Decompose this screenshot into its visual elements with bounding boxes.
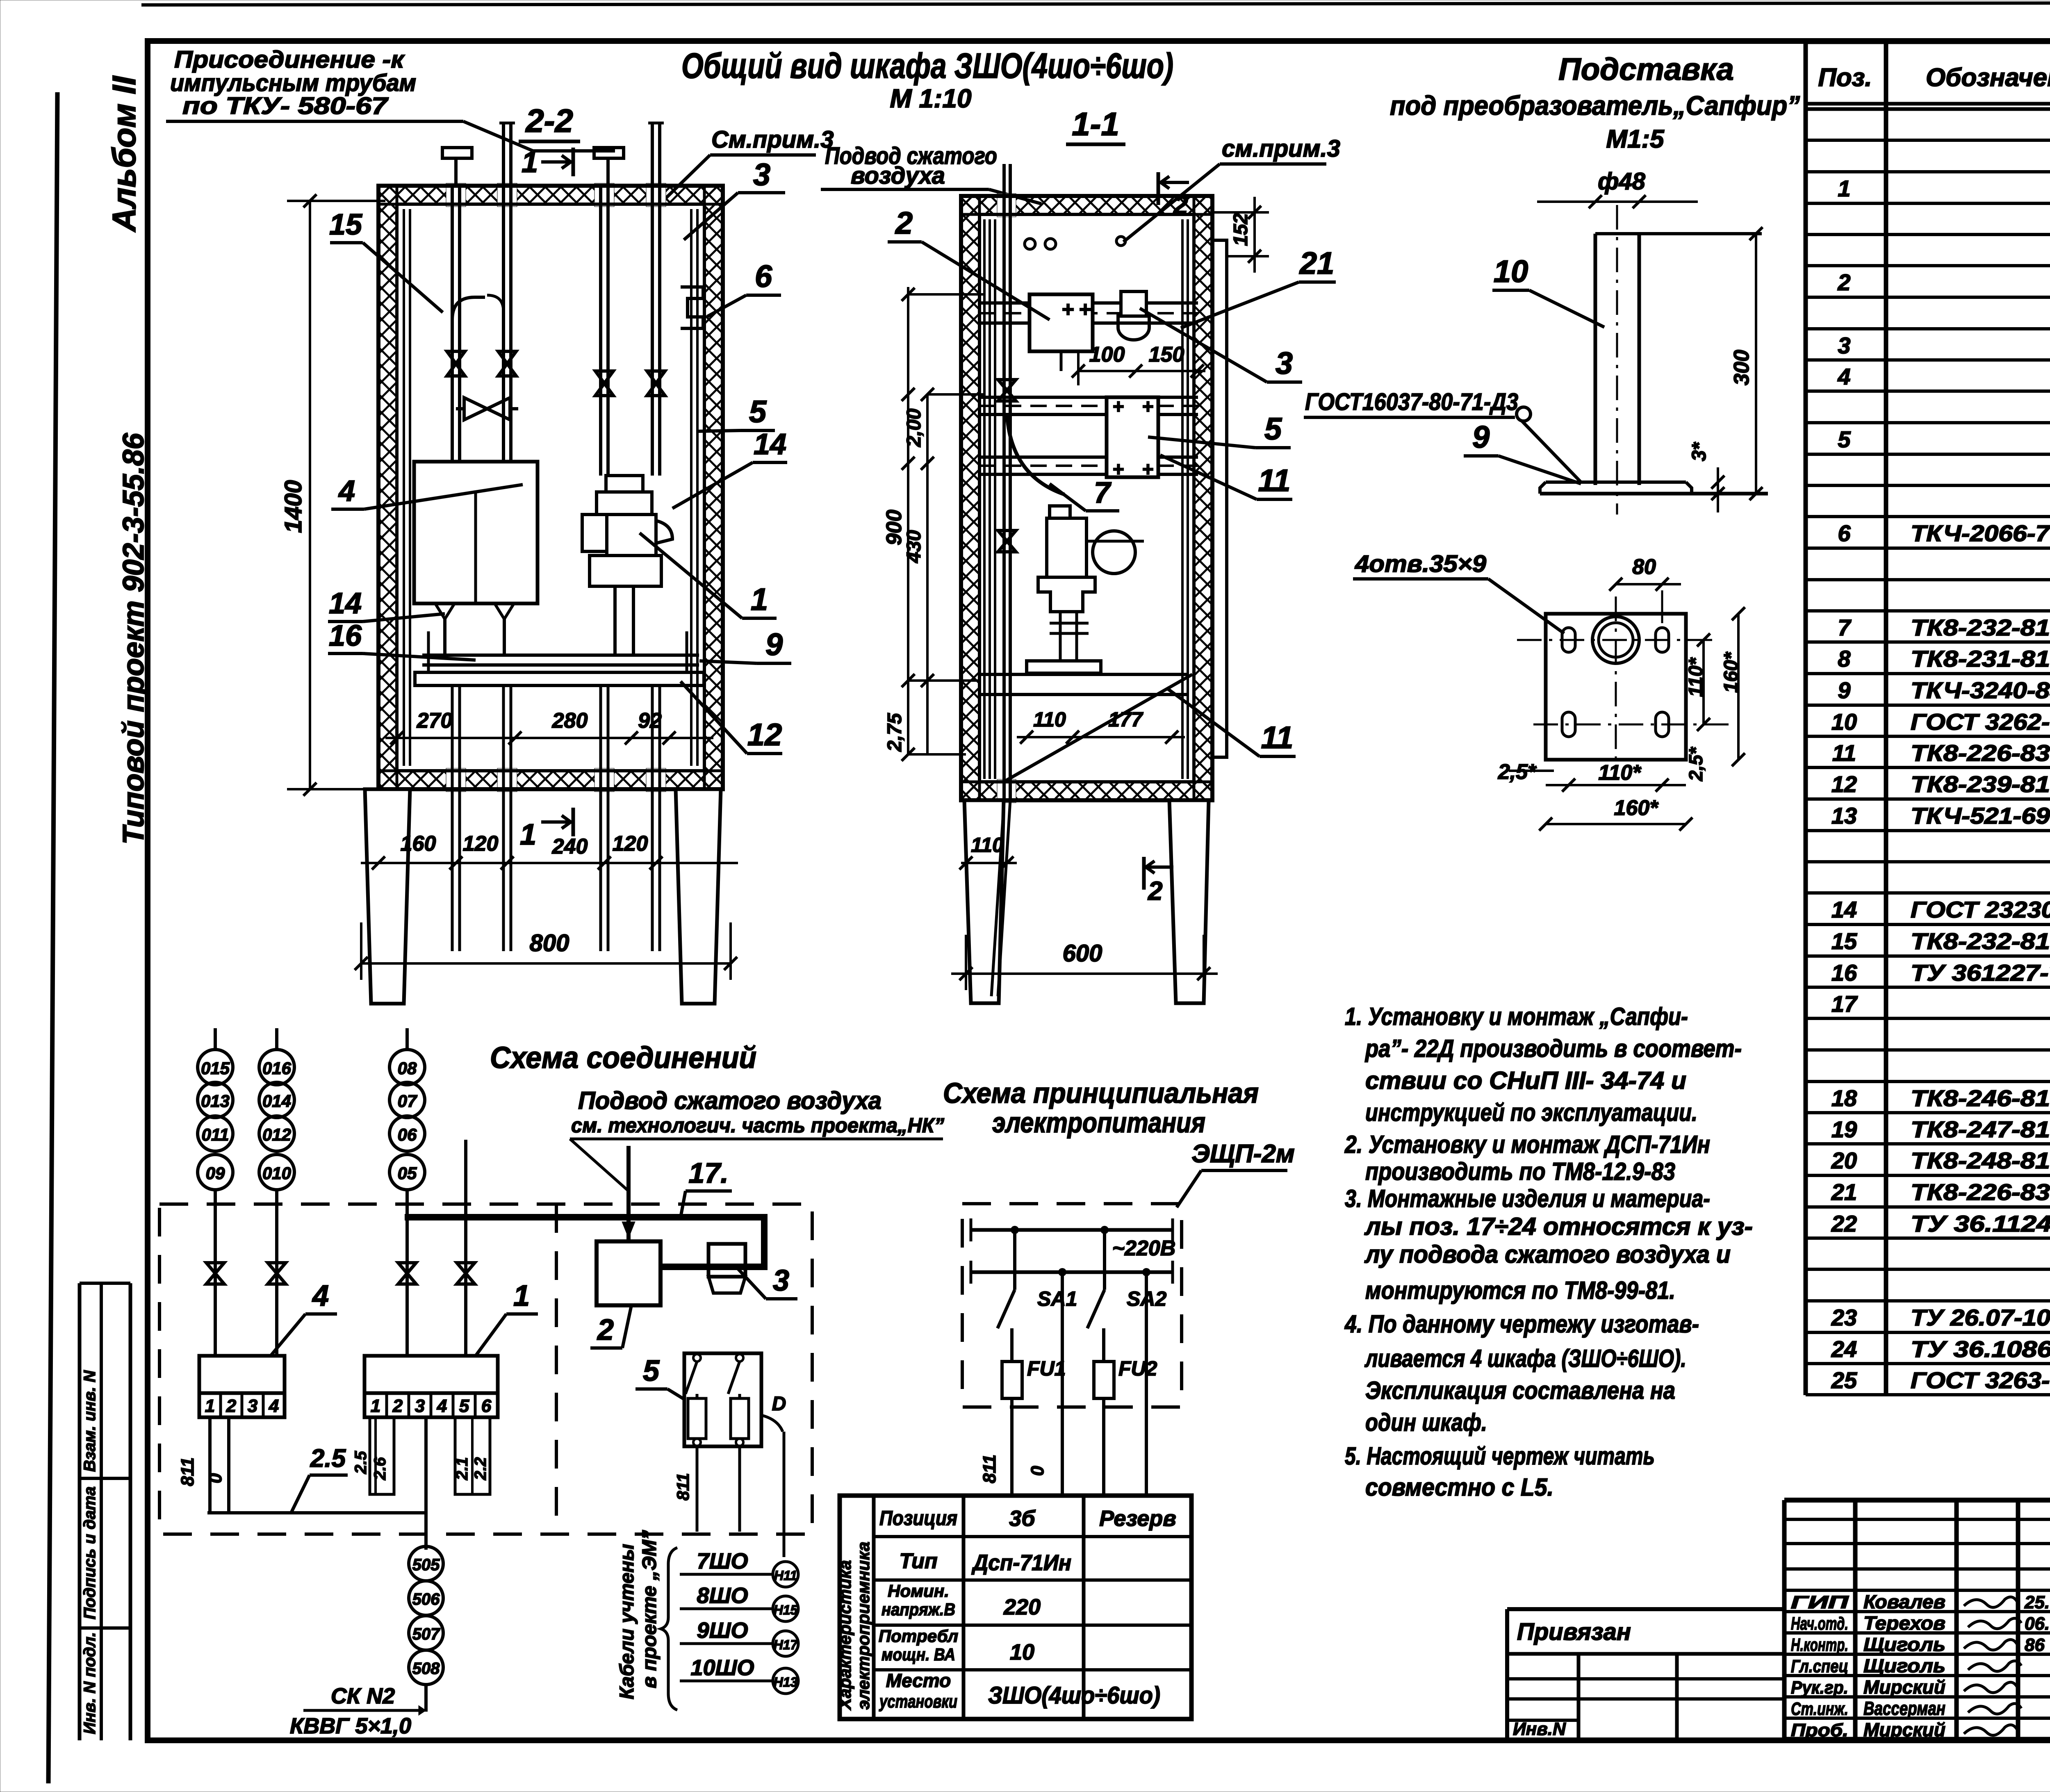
svg-text:10: 10	[1494, 254, 1528, 289]
svg-text:270: 270	[417, 709, 453, 733]
door latch item (right wall)	[681, 287, 703, 328]
fuse FU2	[1094, 1357, 1157, 1497]
svg-text:92: 92	[638, 709, 662, 733]
ESHP-2m label	[1177, 1140, 1295, 1207]
vent holes top	[1025, 237, 1125, 249]
left dims 900/430/200/275	[882, 287, 984, 761]
svg-text:25: 25	[1831, 1367, 1857, 1393]
dim phi48	[1537, 168, 1698, 208]
svg-text:3: 3	[1276, 346, 1293, 381]
svg-text:Н.контр.: Н.контр.	[1791, 1635, 1848, 1655]
schema valve x675	[268, 1263, 286, 1284]
svg-text:Альбом II: Альбом II	[106, 75, 142, 232]
svg-text:160*: 160*	[1720, 651, 1742, 693]
wires down from circles	[215, 1140, 466, 1356]
svg-text:ф48: ф48	[1598, 168, 1646, 195]
svg-text:М1:5: М1:5	[1606, 125, 1665, 153]
note: podvod szhatogo vozduha (top)	[821, 143, 1041, 204]
dim 3*	[1688, 442, 1724, 512]
svg-text:М 1:10: М 1:10	[890, 84, 971, 113]
svg-text:8ШО: 8ШО	[697, 1583, 748, 1608]
svg-text:2: 2	[392, 1396, 403, 1416]
svg-text:+: +	[1142, 459, 1153, 480]
dashed enclosure left	[159, 1204, 812, 1534]
wire circles column C	[389, 1028, 425, 1190]
title block main	[1784, 1498, 2050, 1740]
schema electro title	[943, 1077, 1259, 1139]
device box item 4 (difmanometer)	[414, 462, 538, 603]
dim 152 right	[1212, 197, 1269, 273]
svg-text:Ст.инж.: Ст.инж.	[1791, 1699, 1848, 1719]
svg-text:ТУ 361227-72: ТУ 361227-72	[1911, 960, 2050, 986]
wire circles column A	[198, 1028, 233, 1190]
svg-text:4: 4	[338, 475, 355, 508]
svg-text:5: 5	[1264, 412, 1282, 446]
cabinet legs	[365, 789, 721, 1004]
shkaf rows 7-10 SHO	[680, 1549, 799, 1694]
svg-text:4: 4	[437, 1396, 447, 1416]
middle rails pair	[979, 397, 1198, 474]
svg-text:Н17: Н17	[774, 1637, 799, 1652]
svg-text:+: +	[1112, 459, 1124, 480]
valve on pipe 2	[498, 351, 516, 376]
svg-text:2,75: 2,75	[884, 713, 906, 752]
svg-text:Типовой проект 902-3-55.86: Типовой проект 902-3-55.86	[117, 433, 150, 845]
svg-text:120: 120	[613, 832, 648, 856]
switch SA2	[1087, 1230, 1166, 1362]
svg-text:1: 1	[751, 582, 768, 617]
svg-text:ТК8-248-81: ТК8-248-81	[1911, 1148, 2050, 1173]
svg-text:4: 4	[312, 1280, 329, 1312]
dim 300	[1730, 227, 1763, 500]
svg-text:4. По данному чертежу изгота: 4. По данному чертежу изготав-	[1344, 1310, 1699, 1338]
svg-text:Щиголь: Щиголь	[1863, 1655, 1945, 1676]
stand plan view	[1517, 597, 1734, 779]
mounting plate item 5	[1107, 396, 1158, 480]
svg-text:Инв.N: Инв.N	[1513, 1719, 1566, 1739]
pipes vertical (left pair)	[452, 123, 511, 462]
svg-text:1: 1	[522, 146, 538, 179]
label 1 (schema)	[476, 1280, 538, 1356]
GOST 16037 note	[1304, 389, 1581, 482]
section mark 2 bottom	[1144, 857, 1173, 906]
svg-text:2: 2	[1837, 269, 1850, 295]
svg-text:монтируются по ТМ8-99-81.: монтируются по ТМ8-99-81.	[1365, 1277, 1675, 1304]
svg-text:505: 505	[412, 1556, 440, 1574]
stand base plate side	[1540, 482, 1768, 494]
svg-text:ТК8-239-81: ТК8-239-81	[1911, 771, 2050, 797]
svg-text:под преобразователь„Сапфир”: под преобразователь„Сапфир”	[1390, 90, 1800, 121]
dims 110*/160* right	[1685, 607, 1745, 766]
svg-text:5: 5	[459, 1396, 469, 1416]
svg-text:Ковалев: Ковалев	[1863, 1591, 1945, 1612]
svg-text:КВВГ 5×1,0: КВВГ 5×1,0	[290, 1714, 411, 1738]
section title 1-1	[1066, 106, 1125, 144]
label 3 (middle view)	[1140, 308, 1302, 382]
bottom diagonal panel	[1004, 674, 1192, 782]
valve on pipe 1	[447, 351, 465, 376]
svg-text:мощн. ВА: мощн. ВА	[881, 1645, 955, 1664]
privyazan block	[1507, 1609, 1784, 1740]
svg-text:1. Установку и монтаж „Сапфи: 1. Установку и монтаж „Сапфи-	[1345, 1003, 1688, 1030]
note: prisoedinenie text	[166, 46, 615, 151]
svg-text:220: 220	[1003, 1595, 1041, 1619]
label 2 (schema)	[590, 1305, 631, 1348]
svg-text:23: 23	[1831, 1305, 1857, 1330]
svg-text:9ШО: 9ШО	[697, 1618, 748, 1643]
label 1	[640, 533, 777, 618]
svg-text:ТКЧ-2066-77: ТКЧ-2066-77	[1911, 520, 2050, 546]
svg-text:2: 2	[226, 1396, 237, 1416]
label 14 right	[672, 428, 787, 508]
label 21	[1181, 246, 1336, 328]
svg-text:6: 6	[1838, 520, 1851, 546]
svg-text:014: 014	[262, 1091, 291, 1111]
section mark 2 top	[1158, 172, 1189, 220]
svg-text:06: 06	[398, 1125, 417, 1144]
margin text Album II	[106, 75, 142, 232]
svg-text:13: 13	[1831, 803, 1857, 829]
svg-text:2,5*: 2,5*	[1685, 747, 1706, 781]
svg-text:Поз.: Поз.	[1818, 64, 1872, 92]
dims bottom 2,5*/110*/160*	[1498, 747, 1706, 831]
svg-text:1400: 1400	[280, 480, 307, 533]
regulator box 2 (schema)	[597, 1241, 661, 1305]
dashed enclosure ESHP	[962, 1204, 1182, 1407]
svg-text:3: 3	[773, 1264, 789, 1297]
svg-text:14: 14	[329, 587, 362, 620]
svg-text:0: 0	[205, 1473, 225, 1483]
svg-text:ТК8-226-83: ТК8-226-83	[1911, 1179, 2050, 1205]
cable label SK N2	[290, 1684, 426, 1738]
svg-text:ГОСТ 3263-79: ГОСТ 3263-79	[1911, 1367, 2050, 1393]
sapphire transmitter side view	[1027, 506, 1144, 673]
svg-text:электроприемника: электроприемника	[854, 1542, 873, 1710]
svg-text:86: 86	[2025, 1635, 2045, 1655]
svg-text:506: 506	[412, 1590, 440, 1608]
wire circles column B	[259, 1028, 294, 1190]
svg-text:507: 507	[412, 1625, 440, 1643]
svg-text:2.5: 2.5	[310, 1444, 346, 1473]
svg-text:+: +	[1079, 298, 1091, 321]
label D and wire	[761, 1393, 786, 1557]
paper edge mark top right	[141, 2, 2050, 66]
svg-text:Кабели учтены: Кабели учтены	[616, 1544, 638, 1699]
svg-text:2.6: 2.6	[371, 1457, 389, 1480]
wire channels below block 1	[352, 1417, 490, 1494]
svg-text:508: 508	[412, 1660, 440, 1678]
svg-text:811: 811	[979, 1455, 1000, 1483]
svg-text:430: 430	[903, 530, 925, 563]
label 5 (schema)	[635, 1355, 686, 1400]
svg-text:Вассерман: Вассерман	[1863, 1698, 1945, 1719]
cable circles 505-508	[409, 1546, 443, 1712]
svg-text:ТК8-231-81: ТК8-231-81	[1911, 646, 2050, 672]
svg-text:2: 2	[1173, 190, 1188, 220]
svg-text:совместно с L5.: совместно с L5.	[1365, 1473, 1553, 1501]
dim 110 bottom left	[959, 833, 1017, 870]
label 11 upper	[1160, 455, 1292, 499]
svg-text:Общий вид шкафа ЗШО(4шо÷6шо): Общий вид шкафа ЗШО(4шо÷6шо)	[681, 46, 1173, 86]
svg-text:Резерв: Резерв	[1099, 1506, 1176, 1531]
svg-text:ТУ 36.1124-74: ТУ 36.1124-74	[1911, 1211, 2050, 1236]
svg-text:110*: 110*	[1598, 761, 1642, 785]
svg-text:5: 5	[643, 1355, 660, 1387]
svg-text:120: 120	[463, 832, 499, 856]
svg-text:ТК8-247-81: ТК8-247-81	[1911, 1116, 2050, 1142]
svg-text:Схема соединений: Схема соединений	[490, 1041, 756, 1075]
svg-text:11: 11	[1258, 463, 1291, 498]
svg-text:FU1: FU1	[1027, 1357, 1066, 1380]
section title 2-2	[519, 102, 580, 141]
svg-text:016: 016	[262, 1059, 292, 1078]
svg-text:ТК8-232-81: ТК8-232-81	[1911, 615, 2050, 640]
svg-text:21: 21	[1831, 1179, 1857, 1205]
svg-text:Подпись и дата: Подпись и дата	[81, 1487, 99, 1619]
label 5 (middle view)	[1148, 412, 1291, 448]
regulator item 2 box	[1030, 294, 1093, 371]
main title	[681, 46, 1173, 113]
podvod note bottom	[570, 1087, 944, 1191]
svg-text:110*: 110*	[1685, 657, 1707, 697]
svg-text:воздуха: воздуха	[851, 162, 945, 189]
svg-text:6: 6	[481, 1396, 492, 1416]
svg-text:25.: 25.	[2024, 1592, 2050, 1612]
svg-text:8: 8	[1838, 646, 1851, 672]
label 9 (left view)	[699, 627, 791, 663]
svg-text:11: 11	[1832, 740, 1856, 766]
label 12	[681, 681, 782, 754]
svg-text:160*: 160*	[1614, 796, 1659, 820]
valve on pipe 3	[595, 371, 613, 396]
note 4 holes	[1353, 551, 1564, 633]
svg-text:Подвод сжатого воздуха: Подвод сжатого воздуха	[578, 1087, 881, 1114]
svg-text:5: 5	[1838, 426, 1851, 452]
svg-text:21: 21	[1299, 246, 1335, 281]
dim 1400 vertical	[280, 194, 385, 796]
svg-text:177: 177	[1108, 708, 1143, 731]
inner dims 110/177	[1017, 708, 1185, 744]
bottom rail	[979, 674, 1189, 694]
svg-text:24: 24	[1831, 1336, 1857, 1362]
svg-text:электропитания: электропитания	[992, 1107, 1205, 1139]
stand tube	[1595, 205, 1762, 515]
section mark 1 bottom	[520, 808, 573, 851]
svg-text:3б: 3б	[1009, 1506, 1036, 1531]
svg-text:Потребл: Потребл	[879, 1626, 958, 1646]
svg-text:инструкцией по эксплуатации.: инструкцией по эксплуатации.	[1365, 1099, 1697, 1126]
parts table	[1806, 41, 2050, 1395]
label 15	[329, 208, 443, 312]
svg-text:150: 150	[1149, 343, 1184, 367]
neutral wires down	[979, 1272, 1146, 1497]
svg-text:ливается 4 шкафа (ЗШО÷6ШО).: ливается 4 шкафа (ЗШО÷6ШО).	[1364, 1345, 1686, 1372]
svg-text:Щиголь: Щиголь	[1863, 1634, 1945, 1655]
label 17	[681, 1157, 732, 1217]
section mark 1 top	[522, 146, 573, 179]
svg-text:Номин.: Номин.	[888, 1581, 949, 1601]
svg-text:FU2: FU2	[1118, 1357, 1157, 1380]
svg-text:280: 280	[552, 709, 588, 733]
terminal block item 4	[199, 1356, 285, 1417]
svg-text:110: 110	[1033, 708, 1066, 731]
schema valve x525	[206, 1263, 224, 1284]
schema valve x993	[398, 1263, 416, 1284]
shelf/base inside cabinet	[415, 631, 704, 685]
door panel strip right	[1212, 240, 1227, 757]
svg-text:11: 11	[1261, 720, 1294, 755]
svg-text:4: 4	[1837, 364, 1850, 389]
svg-text:17: 17	[1831, 991, 1858, 1017]
svg-text:См.прим.3: См.прим.3	[711, 126, 834, 153]
svg-text:18: 18	[1831, 1085, 1857, 1111]
svg-text:900: 900	[882, 510, 906, 545]
characteristics table	[835, 1496, 1191, 1719]
svg-text:Присоединение -к: Присоединение -к	[174, 46, 405, 73]
svg-text:160: 160	[401, 832, 436, 856]
label 2.5 leader	[291, 1444, 348, 1513]
paper edge line left	[48, 92, 57, 1783]
notes	[1344, 1003, 1753, 1501]
svg-text:1: 1	[513, 1280, 530, 1312]
svg-text:установки: установки	[879, 1692, 957, 1712]
svg-text:производить по ТМ8-12.9-83: производить по ТМ8-12.9-83	[1365, 1158, 1675, 1185]
svg-text:Схема принципиальная: Схема принципиальная	[943, 1077, 1259, 1109]
inner dim line 270/280/92	[385, 709, 713, 745]
dim 100/150	[1072, 343, 1205, 385]
svg-text:ЗШО(4шо÷6шо): ЗШО(4шо÷6шо)	[988, 1682, 1160, 1709]
svg-text:+: +	[1061, 298, 1074, 321]
valves under box 4	[435, 604, 514, 656]
svg-text:10ШО: 10ШО	[691, 1655, 754, 1680]
svg-text:14: 14	[1831, 897, 1857, 922]
svg-text:14: 14	[754, 428, 786, 461]
svg-text:5. Настоящий чертеж читать: 5. Настоящий чертеж читать	[1345, 1442, 1655, 1470]
title block staff table	[1784, 1500, 2050, 1740]
svg-text:Тип: Тип	[899, 1549, 937, 1573]
svg-text:ГОСТ 23230-78: ГОСТ 23230-78	[1911, 897, 2050, 922]
svg-text:100: 100	[1089, 343, 1125, 367]
label 9 (stand)	[1464, 420, 1581, 484]
label 5 (left view)	[697, 394, 775, 431]
middle cabinet walls	[961, 194, 1212, 803]
svg-text:811: 811	[673, 1473, 692, 1501]
svg-text:012: 012	[262, 1125, 291, 1144]
svg-text:ТК8-246-81: ТК8-246-81	[1911, 1085, 2050, 1111]
valve on air pipe lower	[998, 531, 1016, 552]
air supply arrow	[622, 1146, 635, 1241]
impulse pipe stubs on roof	[442, 148, 624, 186]
equalizing valve horizontal	[456, 398, 518, 420]
svg-text:Н11: Н11	[774, 1568, 797, 1583]
svg-text:4отв.35×9: 4отв.35×9	[1355, 551, 1486, 577]
svg-text:ТУ 36.1086-76: ТУ 36.1086-76	[1911, 1336, 2050, 1362]
label 4	[331, 475, 523, 509]
svg-text:3: 3	[415, 1396, 425, 1416]
fuse FU1	[1002, 1357, 1066, 1497]
svg-text:3*: 3*	[1688, 442, 1710, 461]
svg-text:2.1: 2.1	[453, 1457, 471, 1480]
svg-text:2: 2	[597, 1314, 614, 1346]
svg-text:+: +	[1142, 396, 1153, 418]
svg-text:6: 6	[755, 259, 772, 294]
valve on air pipe upper	[998, 380, 1016, 401]
svg-text:0: 0	[1027, 1466, 1048, 1476]
label 7	[1050, 476, 1119, 511]
svg-text:811: 811	[178, 1457, 198, 1486]
label 11 lower	[1166, 688, 1296, 756]
svg-text:ГОСТ 3262-75: ГОСТ 3262-75	[1911, 709, 2050, 735]
svg-text:Позиция: Позиция	[879, 1507, 957, 1530]
curved pipe to sapphire	[1007, 414, 1064, 494]
svg-text:3: 3	[248, 1396, 257, 1416]
svg-text:ствии со СНиП III- 34-74 и: ствии со СНиП III- 34-74 и	[1365, 1067, 1686, 1094]
svg-text:ТК8-226-83: ТК8-226-83	[1911, 740, 2050, 766]
svg-text:12: 12	[1831, 771, 1857, 797]
svg-text:10: 10	[1010, 1640, 1034, 1664]
middle cabinet lining	[984, 219, 1188, 779]
label 3 (schema)	[738, 1264, 797, 1299]
svg-text:1: 1	[205, 1396, 215, 1416]
svg-text:Н15: Н15	[774, 1603, 798, 1617]
svg-text:D: D	[772, 1393, 786, 1415]
thick air lines	[405, 1214, 768, 1267]
pipes vertical (right pair to sapphire)	[499, 123, 664, 476]
svg-text:08: 08	[398, 1059, 417, 1078]
svg-text:Обозначение: Обозначение	[1926, 64, 2050, 92]
svg-text:ТУ 26.07-1085-74: ТУ 26.07-1085-74	[1911, 1305, 2050, 1330]
note: sm.prim.3 left	[662, 126, 834, 202]
left margin inventory strip	[80, 1283, 130, 1740]
svg-text:2.5: 2.5	[352, 1451, 370, 1474]
svg-text:лы поз. 17÷24 относятся к: лы поз. 17÷24 относятся к уз-	[1364, 1213, 1753, 1240]
svg-text:06.: 06.	[2025, 1614, 2050, 1634]
svg-text:7: 7	[1094, 476, 1112, 509]
dim line 800	[355, 922, 737, 980]
U-bends at pipe tops	[452, 295, 503, 320]
svg-text:Подставка: Подставка	[1558, 52, 1734, 87]
label 16	[328, 619, 476, 660]
svg-text:Взам. инв. N: Взам. инв. N	[81, 1370, 99, 1472]
svg-text:19: 19	[1831, 1116, 1857, 1142]
svg-text:010: 010	[262, 1164, 291, 1183]
svg-text:ра”- 22Д производить в соот: ра”- 22Д производить в соответ-	[1364, 1035, 1742, 1062]
svg-text:5: 5	[749, 394, 767, 429]
svg-text:Н13: Н13	[774, 1675, 798, 1690]
svg-text:1: 1	[1838, 175, 1850, 201]
schema soedinenij title	[490, 1041, 756, 1075]
svg-text:2: 2	[895, 206, 913, 241]
label 4 (schema)	[271, 1280, 337, 1356]
svg-text:Дсп-71Ин: Дсп-71Ин	[971, 1551, 1071, 1575]
svg-text:05: 05	[398, 1164, 417, 1183]
svg-text:7: 7	[1838, 615, 1852, 640]
svg-text:2,00: 2,00	[903, 408, 925, 447]
dim 600	[951, 935, 1218, 990]
svg-text:300: 300	[1730, 350, 1754, 385]
svg-text:~220В: ~220В	[1112, 1236, 1176, 1260]
svg-text:07: 07	[398, 1091, 417, 1111]
svg-text:80: 80	[1632, 555, 1656, 579]
svg-text:1: 1	[371, 1396, 380, 1416]
svg-text:12: 12	[747, 717, 782, 752]
svg-text:Экспликация составлена на: Экспликация составлена на	[1365, 1377, 1675, 1404]
middle cabinet legs	[964, 800, 1209, 1003]
svg-text:16: 16	[329, 619, 362, 652]
svg-text:09: 09	[206, 1164, 225, 1183]
svg-text:20: 20	[1831, 1148, 1857, 1173]
svg-text:9: 9	[765, 627, 783, 662]
